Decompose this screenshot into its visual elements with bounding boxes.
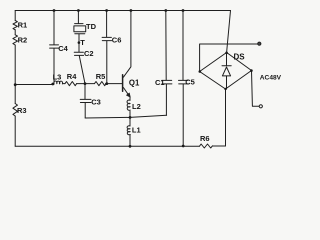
wire AC top: left vertex to terminal — [200, 44, 258, 72]
wire L1 to bottom rail — [129, 135, 131, 147]
wire bottom rail — [15, 145, 225, 147]
svg-text:L2: L2 — [132, 102, 141, 111]
svg-text:AC48V: AC48V — [260, 74, 282, 81]
wire base branch — [15, 83, 122, 86]
svg-text:R6: R6 — [200, 134, 210, 143]
svg-text:C3: C3 — [91, 98, 101, 107]
terminal bottom AC — [259, 105, 262, 108]
wire left vertical — [14, 11, 16, 147]
wire C3/C1 to emitter junction — [85, 115, 166, 118]
inductor L1 — [127, 126, 130, 135]
svg-text:DS: DS — [234, 52, 246, 61]
capacitor C4 — [50, 11, 59, 85]
svg-text:R5: R5 — [96, 72, 106, 81]
svg-text:C2: C2 — [84, 49, 94, 58]
capacitor C1 — [162, 11, 172, 116]
bridge rectifier DS diamond — [200, 53, 252, 90]
resistor R3 — [13, 104, 18, 116]
capacitor C2 — [74, 43, 85, 84]
svg-text:C1: C1 — [155, 78, 165, 87]
svg-text:R3: R3 — [17, 106, 27, 115]
svg-text:C4: C4 — [58, 44, 68, 53]
svg-text:L3: L3 — [53, 72, 62, 81]
transistor Q1 emitter arrowhead — [126, 93, 130, 97]
inductor L3 — [54, 81, 63, 84]
resistor R6 — [200, 144, 213, 148]
svg-text:R1: R1 — [18, 20, 28, 29]
capacitor C5 — [179, 11, 189, 147]
crystal TD — [75, 11, 85, 43]
svg-text:TD: TD — [86, 22, 97, 31]
transistor Q1 base bar — [122, 75, 124, 91]
svg-text:C5: C5 — [185, 78, 195, 87]
wire AC bottom: right vertex to terminal — [252, 71, 259, 107]
wire bridge bottom vertical — [225, 89, 227, 146]
resistor R4 — [65, 82, 77, 86]
capacitor C3 — [80, 84, 91, 118]
transistor Q1 collector wire — [123, 11, 130, 78]
svg-text:Q1: Q1 — [129, 79, 140, 88]
svg-text:C6: C6 — [112, 35, 122, 44]
svg-text:T: T — [80, 38, 85, 47]
terminal top AC — [258, 42, 261, 45]
svg-text:R2: R2 — [18, 36, 28, 45]
capacitor C6 — [102, 11, 112, 84]
svg-text:R4: R4 — [67, 72, 77, 81]
resistor R5 — [95, 82, 107, 86]
transistor Q1 emitter — [123, 88, 130, 101]
wire top rail — [15, 10, 230, 12]
svg-text:L1: L1 — [132, 125, 141, 134]
wire L2 to L1 — [129, 111, 131, 126]
resistor R1 — [13, 21, 17, 30]
inductor L2 — [127, 100, 130, 110]
wire top-right drop to bridge — [227, 11, 231, 53]
diode inside DS — [222, 53, 231, 90]
resistor R2 — [13, 35, 18, 45]
